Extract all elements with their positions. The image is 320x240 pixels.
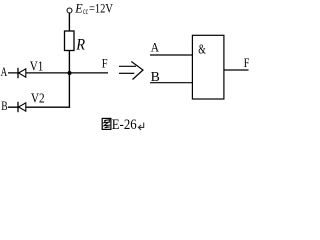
svg-text:R: R [75, 36, 85, 53]
svg-text:V2: V2 [31, 90, 45, 105]
svg-text:B: B [1, 98, 8, 113]
svg-text:E-26: E-26 [112, 117, 137, 133]
svg-text:V1: V1 [30, 58, 44, 73]
svg-text:cc: cc [83, 6, 88, 16]
svg-text:A: A [1, 64, 8, 79]
svg-text:&: & [198, 43, 206, 58]
svg-text:E: E [74, 0, 82, 15]
svg-text:=12V: =12V [89, 0, 113, 15]
svg-text:F: F [102, 56, 108, 71]
svg-text:F: F [244, 55, 250, 70]
svg-text:A: A [151, 40, 160, 55]
svg-text:B: B [151, 69, 160, 84]
